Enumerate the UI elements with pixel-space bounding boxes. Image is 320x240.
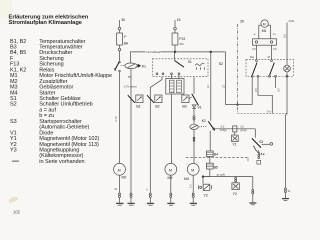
wire xyxy=(170,198,172,204)
connector xyxy=(119,193,121,197)
svg-text:S2: S2 xyxy=(10,102,17,108)
motor M1 xyxy=(261,20,268,33)
svg-text:hellgn: hellgn xyxy=(220,128,227,132)
svg-text:B2: B2 xyxy=(155,104,159,108)
ground xyxy=(249,203,256,205)
svg-text:MuN: MuN xyxy=(289,19,295,23)
wire link to dash-dot xyxy=(226,104,253,106)
wire bus xyxy=(161,51,226,53)
svg-text:30: 30 xyxy=(121,18,125,22)
wire xyxy=(252,194,254,203)
wire xyxy=(119,72,121,163)
svg-text:M4: M4 xyxy=(184,177,189,181)
svg-text:0,5: 0,5 xyxy=(273,47,277,51)
ground xyxy=(128,203,135,205)
svg-text:B3: B3 xyxy=(182,104,186,108)
ground xyxy=(282,199,289,201)
wire down right of Y2 xyxy=(252,177,254,190)
wire bus lower xyxy=(203,176,253,178)
svg-text:S1: S1 xyxy=(188,60,192,64)
svg-text:8A: 8A xyxy=(124,42,129,46)
switch S1 xyxy=(153,52,209,77)
svg-text:Tür: Tür xyxy=(267,110,271,114)
svg-text:Y2: Y2 xyxy=(233,192,237,196)
node junction Y3 xyxy=(202,176,204,178)
svg-text:V1: V1 xyxy=(197,106,201,110)
wire xyxy=(285,193,287,199)
pressure switch B5 xyxy=(206,163,218,169)
valve Y2 xyxy=(232,177,239,195)
fuse F13 xyxy=(172,33,185,46)
relay K2 link xyxy=(199,125,207,128)
svg-text:M1: M1 xyxy=(262,29,267,33)
svg-text:1,5: 1,5 xyxy=(221,84,225,88)
switch contact B3 drive xyxy=(192,94,199,106)
svg-text:30a: 30a xyxy=(250,55,255,59)
page stain bottom-left xyxy=(8,196,19,203)
wire label pair right xyxy=(240,125,247,133)
svg-text:gn/ge: gn/ge xyxy=(240,128,247,132)
svg-text:K1: K1 xyxy=(142,64,146,68)
motor M4 xyxy=(184,163,199,181)
switch contact on wire 119 xyxy=(114,61,120,71)
wire top right xyxy=(283,19,295,59)
thermo switch B3 xyxy=(182,95,192,108)
svg-text:M: M xyxy=(191,168,194,172)
svg-text:M3: M3 xyxy=(168,176,173,180)
wire xyxy=(130,69,132,193)
S2 output stubs xyxy=(252,72,287,114)
ground xyxy=(116,203,124,205)
wire down right xyxy=(225,52,227,105)
wire to Y3 xyxy=(202,177,204,184)
svg-text:S3: S3 xyxy=(10,119,17,125)
wire stubs below S1 xyxy=(150,75,179,193)
svg-text:M2: M2 xyxy=(122,176,127,180)
wire stubs M1 to S2 xyxy=(252,45,277,59)
lamp in S2 xyxy=(284,60,291,72)
connector xyxy=(193,116,195,120)
svg-text:0,5: 0,5 xyxy=(276,88,280,92)
svg-text:F13: F13 xyxy=(179,37,185,41)
svg-text:102: 102 xyxy=(13,210,21,215)
valve Y1 xyxy=(232,132,239,147)
door contact dashed wire xyxy=(238,110,288,114)
connector M1 xyxy=(253,39,277,45)
svg-text:B4: B4 xyxy=(214,153,218,157)
wire xyxy=(192,198,194,204)
wire from K1 to bus xyxy=(131,52,146,63)
wire xyxy=(203,169,210,177)
svg-text:Stromlaufplan Klimaanlage: Stromlaufplan Klimaanlage xyxy=(9,20,83,26)
terminal below fuse F xyxy=(118,45,121,51)
wire xyxy=(130,198,132,204)
wire K2 to S3 xyxy=(214,128,256,130)
switch S2 xyxy=(219,55,294,77)
schematic wiring diagram xyxy=(114,18,295,205)
svg-text:1,5: 1,5 xyxy=(188,184,192,188)
svg-text:0,75 sw/ws: 0,75 sw/ws xyxy=(124,85,138,89)
ground xyxy=(167,203,174,205)
svg-text:M: M xyxy=(263,22,266,26)
svg-text:Y1: Y1 xyxy=(232,143,236,147)
thermo switch B2 xyxy=(147,95,162,108)
wire xyxy=(171,94,173,163)
node junction F13 xyxy=(174,51,176,53)
relay coil K2 xyxy=(190,124,198,129)
valve Y3 xyxy=(199,184,212,197)
svg-text:15: 15 xyxy=(177,18,181,22)
svg-text:ge gelb: ge gelb xyxy=(217,173,226,177)
wire xyxy=(170,175,172,193)
wire xyxy=(209,131,211,151)
connector xyxy=(285,188,292,193)
svg-text:0,5: 0,5 xyxy=(252,47,256,51)
svg-text:in Serie vorhanden: in Serie vorhanden xyxy=(39,159,84,165)
wire xyxy=(192,175,194,193)
connector xyxy=(149,193,151,197)
legend entries xyxy=(10,39,112,159)
page binding edge xyxy=(0,0,12,18)
svg-text:1,0: 1,0 xyxy=(206,84,210,88)
svg-text:15A: 15A xyxy=(179,42,184,46)
relay contact K2 xyxy=(208,121,215,130)
motor M1 leads xyxy=(254,25,276,39)
ground xyxy=(147,203,154,205)
connector xyxy=(252,190,254,194)
svg-text:S2: S2 xyxy=(219,62,223,66)
wire xyxy=(119,51,121,61)
resistor block xyxy=(166,79,184,95)
connector xyxy=(170,193,172,197)
fuse F xyxy=(117,33,129,46)
svg-text:0,5: 0,5 xyxy=(254,88,258,92)
thermo switch B1 xyxy=(128,95,143,108)
wire xyxy=(119,198,121,204)
svg-text:Y3: Y3 xyxy=(10,148,17,154)
motor M3 xyxy=(165,163,177,179)
boundary dashed line xyxy=(186,158,248,162)
svg-text:B1: B1 xyxy=(136,104,140,108)
svg-text:30: 30 xyxy=(240,20,244,24)
legend title xyxy=(9,14,89,26)
svg-text:M: M xyxy=(169,168,172,172)
node terminal 15 xyxy=(174,18,181,33)
wire from bus to K2 contact xyxy=(210,52,212,121)
connector xyxy=(193,137,195,141)
wire xyxy=(119,175,121,193)
wire xyxy=(193,120,195,124)
svg-text:S3: S3 xyxy=(259,140,263,144)
wire xyxy=(174,45,176,52)
connector xyxy=(130,193,132,197)
ground xyxy=(190,203,197,205)
relay K1 xyxy=(121,63,146,69)
wire S1 to V1 xyxy=(193,77,195,94)
connector xyxy=(192,193,194,197)
svg-text:Umluftbetr.: Umluftbetr. xyxy=(146,50,161,54)
svg-text:K2: K2 xyxy=(202,119,206,123)
wire xyxy=(193,130,195,164)
node K2 out xyxy=(213,128,215,130)
svg-text:0,5: 0,5 xyxy=(283,34,287,38)
svg-text:Y3: Y3 xyxy=(203,193,207,197)
dash-dot wire 30 xyxy=(238,20,244,114)
wire xyxy=(149,198,151,204)
pressure switch B4 xyxy=(206,151,218,157)
svg-text:M: M xyxy=(118,168,121,172)
wire xyxy=(209,157,211,164)
wire right down xyxy=(286,114,288,188)
motor M2 xyxy=(114,163,127,179)
wire label pair left xyxy=(220,125,227,133)
wire xyxy=(193,109,195,116)
diode V1 xyxy=(192,105,201,110)
legend footnote line-style sample xyxy=(12,159,85,165)
node terminal 30 xyxy=(118,18,125,33)
node junction S1 right xyxy=(210,51,212,53)
svg-text:B5: B5 xyxy=(214,166,218,170)
connector block xyxy=(233,126,237,132)
switch S3 xyxy=(252,129,273,164)
svg-text:0,75: 0,75 xyxy=(114,116,118,122)
